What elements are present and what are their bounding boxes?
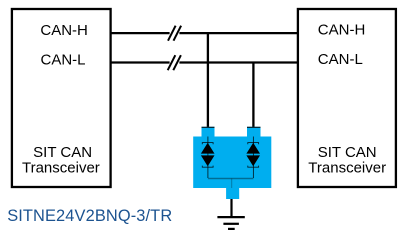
- TVS channel 1 (CAN-H) bidirectional diode: [202, 137, 214, 179]
- TVS D1 ground tab: [226, 188, 239, 199]
- svg-text:CAN-H: CAN-H: [318, 22, 366, 39]
- svg-text:CAN-L: CAN-L: [41, 51, 86, 68]
- break mark CAN-L: [168, 55, 181, 70]
- wire ground stem: [230, 199, 232, 217]
- TVS D1 body: [193, 137, 271, 189]
- wire CAN-L right segment: [179, 61, 298, 63]
- break mark CAN-H: [168, 26, 181, 41]
- wire CAN-H left segment: [111, 32, 170, 34]
- transceiver box U1 (left): [12, 9, 111, 187]
- svg-text:Transceiver: Transceiver: [308, 159, 386, 176]
- svg-text:CAN-H: CAN-H: [40, 22, 88, 39]
- wire CAN-L drop to TVS pin 2: [252, 63, 254, 128]
- wire bus to ground pin: [231, 179, 233, 189]
- ground: [217, 217, 244, 229]
- TVS channel 2 (CAN-L) bidirectional diode: [247, 137, 259, 179]
- TVS D1 pin 2 tab: [247, 127, 261, 137]
- wire CAN-H drop to TVS pin 1: [207, 33, 209, 127]
- svg-text:CAN-L: CAN-L: [318, 51, 363, 68]
- wire CAN-H right segment: [179, 32, 298, 34]
- wire CAN-L left segment: [111, 61, 170, 63]
- wire common anode bus inside TVS: [208, 178, 254, 180]
- svg-text:Transceiver: Transceiver: [22, 159, 100, 176]
- transceiver box U2 (right): [298, 9, 396, 187]
- TVS D1 pin 1 tab: [202, 127, 215, 137]
- svg-text:SITNE24V2BNQ-3/TR: SITNE24V2BNQ-3/TR: [7, 207, 172, 225]
